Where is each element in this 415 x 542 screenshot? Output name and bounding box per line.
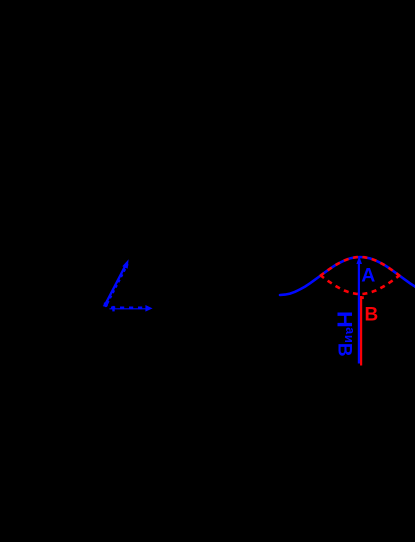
- node lens lower arc (red dashed): [320, 275, 400, 294]
- node lens upper arc (red dashed over curve): [320, 257, 400, 276]
- node origin: [104, 302, 108, 307]
- svg-text:B: B: [365, 305, 379, 326]
- node lens bottom nub: [361, 296, 364, 299]
- svg-text:В: В: [334, 343, 355, 357]
- wire: [110, 305, 153, 312]
- vector v0 (diagonal blue arrow): [106, 264, 127, 304]
- wire height line red (B to ground): [360, 296, 362, 366]
- vector vx (horizontal dashed blue arrow): [110, 308, 151, 310]
- svg-text:H: H: [332, 311, 355, 328]
- svg-text:и: и: [342, 335, 357, 343]
- wire height line blue (A to ground) with up arrow: [356, 256, 362, 364]
- svg-text:A: A: [361, 264, 375, 286]
- wire trajectory (blue sinusoidal hump): [280, 257, 415, 295]
- wire: [103, 259, 128, 306]
